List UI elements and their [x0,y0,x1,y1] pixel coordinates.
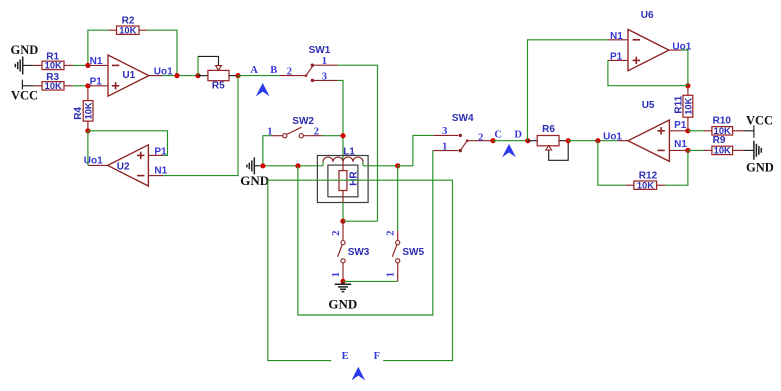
wire L1 right to node [363,165,398,167]
svg-text:HR: HR [349,171,360,186]
ground symbol GND (bottom) [328,281,357,311]
svg-text:C: C [494,129,502,140]
resistor R2 [109,16,148,36]
wire SW1 pin3 down to L1 [338,80,344,161]
svg-text:1: 1 [442,141,447,152]
resistor R11 [674,86,694,131]
svg-text:U5: U5 [642,100,655,111]
svg-text:2: 2 [287,67,292,78]
svg-text:R6: R6 [542,124,555,135]
junction dot U5 N1 [685,148,690,153]
svg-text:SW4: SW4 [452,113,474,124]
power symbol VCC (left) [11,80,38,103]
junction dot node 221 [340,219,345,224]
ground symbol GND (right) [744,141,774,175]
wire U2 output up to R4 node [87,131,89,166]
svg-text:N1: N1 [610,31,623,42]
svg-text:SW1: SW1 [309,45,331,56]
svg-text:1: 1 [322,56,327,67]
wire node to SW4 pin3 [398,135,434,165]
op-amp U1 [88,55,162,96]
svg-text:10K: 10K [45,61,62,71]
node P1 junction dot [85,83,90,88]
svg-text:1: 1 [386,272,397,277]
wire E-F loop [268,180,453,360]
junction dot R6 left / U6 riser [525,138,530,143]
resistor R12 [598,141,688,191]
svg-text:Uo1: Uo1 [672,41,691,52]
wire node A-B to SW1 [238,75,306,77]
switch SW2 [263,116,343,166]
wire R3 to node P1 [73,85,88,87]
svg-text:N1: N1 [90,56,103,67]
svg-text:N1: N1 [674,139,687,150]
junction dot U6 output/R11 [685,83,690,88]
wire U6 output down to R11 [681,50,688,86]
svg-text:R9: R9 [713,135,726,146]
svg-text:Uo1: Uo1 [84,156,103,167]
svg-text:U1: U1 [122,70,135,81]
svg-text:R10: R10 [713,116,732,127]
svg-text:B: B [270,65,277,76]
svg-text:E: E [342,351,349,362]
junction dot R5 left [195,73,200,78]
wire R6 to U5 output [568,140,618,142]
svg-text:SW3: SW3 [348,247,370,258]
resistor R10 [688,116,744,137]
junction dot output/R2 [174,73,179,78]
svg-text:2: 2 [386,231,397,236]
svg-text:P1: P1 [90,77,103,88]
svg-text:R5: R5 [212,81,225,92]
svg-text:10K: 10K [119,26,136,36]
svg-text:1: 1 [267,126,272,137]
svg-text:3: 3 [322,72,327,83]
inductor L1 with heater HR (sensor assembly) [317,147,368,222]
resistor R9 [688,135,744,156]
wire GND to SW5 pin1 [343,280,398,282]
wire riser to U6 N1 [528,40,608,141]
wire ground loop to SW4 pin1 [298,151,433,315]
svg-text:GND: GND [240,173,269,188]
svg-text:SW5: SW5 [402,247,424,258]
svg-text:D: D [514,129,522,140]
svg-text:GND: GND [746,161,774,175]
svg-text:3: 3 [442,126,447,137]
junction dot R6 right [566,138,571,143]
wire GND bus to L1 [260,165,324,167]
potentiometer R6 [528,124,568,160]
svg-text:U2: U2 [117,161,130,172]
junction dot SW3 ground [340,279,345,284]
op-amp U5 [618,100,688,161]
svg-text:10K: 10K [637,181,654,191]
probe arrow E-F [352,367,366,381]
junction dot SW2 ground [260,163,265,168]
resistor R1 [33,52,73,71]
wire R4 node to U2 P1 [88,131,168,156]
junction dot R5 right [235,73,240,78]
svg-text:10K: 10K [714,146,731,156]
wire SW1 pin1 down to node 221 [338,65,378,221]
probe arrow A-B [256,83,270,96]
junction dot R4 bottom [85,128,90,133]
svg-text:P1: P1 [674,120,687,131]
op-amp U6 [608,10,682,71]
junction dot Uo1/R12 [595,138,600,143]
wire node N1 up to R2 [88,30,109,65]
ground symbol GND (middle) [240,157,269,188]
switch SW5 [392,231,424,281]
svg-text:2: 2 [314,126,319,137]
svg-text:10K: 10K [683,97,693,114]
op-amp U2 [88,145,163,186]
wire node 221 to SW1 riser [343,220,378,222]
svg-text:VCC: VCC [11,89,38,103]
svg-text:2: 2 [331,231,342,236]
wire U2 N1 to R5 right node [163,76,238,176]
svg-text:U6: U6 [641,10,654,21]
power symbol VCC (right) [744,113,774,137]
switch SW1 [305,45,338,82]
svg-text:2: 2 [478,132,483,143]
svg-text:1: 1 [331,272,342,277]
wire U1 output to R5 [162,75,198,77]
wire U6 P1 feedback [608,60,688,85]
svg-text:10K: 10K [45,81,62,91]
probe arrow C-D [502,144,516,157]
switch SW4 [433,113,493,152]
resistor R3 [34,72,73,91]
node N1 junction dot [85,63,90,68]
svg-text:GND: GND [328,297,357,312]
svg-text:10K: 10K [84,102,94,119]
svg-text:P1: P1 [610,52,623,63]
junction dot SW2/SW1 net [340,133,345,138]
potentiometer R5 [198,56,238,91]
wire R1 to node N1 [73,64,88,66]
svg-text:GND: GND [11,43,39,57]
junction dot node C-D [490,138,495,143]
svg-text:VCC: VCC [746,113,773,127]
svg-text:R4: R4 [73,107,84,120]
junction dot L1 right node [395,163,400,168]
ground symbol GND (top left) [11,43,39,75]
switch SW3 [338,221,370,281]
junction dot ground loop [295,163,300,168]
junction dot U5 P1 [685,128,690,133]
resistor R4 [73,86,94,131]
wire SW5 pin2 riser [397,166,399,231]
svg-text:L1: L1 [343,147,355,158]
wire node C-D to R6 [493,140,528,142]
wire R2 to output node [147,30,177,75]
svg-text:SW2: SW2 [292,116,314,127]
svg-text:A: A [250,65,258,76]
svg-text:F: F [374,351,380,362]
